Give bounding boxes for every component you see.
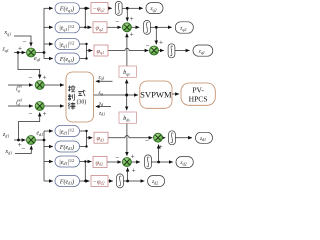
svg-text:ed1: ed1: [37, 131, 44, 137]
wire sum ed1 to node: [36, 139, 45, 141]
wire ed1 distribution vertical: [43, 131, 45, 181]
svg-text:−: −: [115, 154, 119, 162]
wire integrator3 to z_q1 ellipse: [175, 50, 190, 52]
control law box: [66, 72, 94, 122]
wire phi_d2 to sum1b: [107, 161, 121, 163]
svg-text:+: +: [131, 153, 135, 161]
wire z_q1 branch down to iq sum: [18, 53, 40, 79]
svg-text:bds: bds: [123, 116, 130, 123]
svg-text:−: −: [29, 74, 33, 82]
wire sum eq1 to node: [36, 52, 45, 54]
control law chinese: shi: [78, 90, 85, 96]
wire phi_q2 to sum1: [107, 26, 121, 28]
block F(e_q1) row1: [55, 3, 80, 14]
node after integrator1: [126, 7, 129, 10]
wire phi_q1 to sum2 with hop: [108, 48, 149, 50]
wire z_d1 input bottom: [14, 139, 26, 141]
node z_q1 out: [193, 45, 213, 56]
wire sum1 to integrator2: [131, 26, 139, 28]
block |e_q1|^1/2 row2: [55, 22, 80, 33]
svg-text:F(eq1): F(eq1): [59, 56, 74, 63]
wire b_qs up into sum1 bottom: [126, 33, 128, 66]
svg-text:−: −: [146, 42, 150, 50]
integrator 3 d: [169, 131, 176, 145]
svg-text:zq2: zq2: [179, 26, 186, 32]
node join groupA bottom: [85, 145, 87, 147]
node join groupB top: [84, 160, 86, 162]
svg-text:−: −: [23, 38, 27, 46]
wire feed |eq1| row3: [44, 43, 53, 45]
node after integrator2b: [157, 161, 160, 164]
gain phi_q1: [94, 45, 108, 56]
control law chinese: lv: [68, 103, 75, 110]
svg-text:+: +: [130, 15, 134, 23]
wire node up into sum1b bottom: [127, 168, 129, 181]
wire node to z_q2 ellipse row1: [127, 7, 143, 9]
wire join group1: [80, 8, 86, 27]
node join group1 bottom: [84, 26, 86, 28]
gain b_ds: [119, 112, 136, 123]
wire node down into sum2 top: [155, 27, 157, 44]
node z_q1 branch: [17, 51, 20, 54]
svg-text:−: −: [145, 136, 149, 144]
svg-text:+: +: [159, 39, 163, 47]
gain phi_q2: [93, 22, 107, 33]
svg-text:zd2: zd2: [151, 179, 158, 185]
wire integrator2b to node: [152, 161, 159, 163]
wire into -phi_d2: [85, 180, 89, 182]
svg-text:F(ed1): F(ed1): [59, 144, 74, 151]
wire feed F(eq1) row4: [44, 58, 53, 60]
svg-text:zd1: zd1: [199, 136, 206, 142]
svg-text:+: +: [130, 31, 134, 39]
block F(e_q1) row4: [55, 53, 80, 64]
wire sum2 to integrator3: [158, 50, 163, 52]
block F(e_d1) row2b: [55, 141, 80, 152]
svg-text:+: +: [43, 110, 47, 118]
wire feed F(eq1) row1: [44, 7, 53, 9]
wire node down into sum1 top: [126, 8, 128, 21]
wire node to z_d2 ellipse row4b: [128, 180, 145, 182]
svg-text:xd1: xd1: [5, 149, 13, 155]
wire sum2b to integrator3b: [162, 137, 165, 139]
wire into phi_d1: [87, 137, 93, 139]
PV-HPCS box: [181, 83, 215, 105]
svg-text:xq1: xq1: [4, 30, 12, 36]
wire node up into b_qs: [126, 80, 128, 96]
wire into phi_q2: [85, 26, 91, 28]
node join groupB bottom: [84, 180, 86, 182]
svg-text:HPCS: HPCS: [189, 95, 208, 104]
wire z_q1 stub into box: [96, 80, 113, 82]
wire sum1b to integrator2b: [131, 161, 140, 163]
wire s_d z_d1 stub into box: [96, 106, 111, 108]
svg-text:+: +: [159, 143, 163, 151]
wire node to z_q2 ellipse row2: [156, 26, 172, 28]
integrator 1 q: [115, 1, 122, 15]
wire x_d1 input bottom: [15, 146, 31, 154]
svg-text:F(ed1): F(ed1): [59, 178, 74, 185]
sum i_q: [35, 81, 44, 90]
integrator 3 q: [168, 44, 175, 58]
integrator 2 d: [145, 155, 152, 169]
wire z_q1 input: [14, 52, 26, 54]
wire feed |ed1| row1b: [44, 130, 53, 132]
node z_q2 row2: [175, 22, 193, 33]
wire feed F(ed1) row4b: [44, 180, 53, 182]
svg-text:−: −: [115, 18, 119, 26]
svg-text:eq1: eq1: [34, 56, 41, 62]
wire integrator1b to node: [124, 180, 128, 182]
wire node to z_d2 ellipse row2b: [159, 161, 173, 163]
svg-text:sq: sq: [99, 90, 103, 96]
node z_d1 branch: [17, 139, 20, 142]
svg-text:bqs: bqs: [123, 70, 130, 77]
wire feed F(ed1) row2b: [44, 146, 53, 148]
node after integrator2: [155, 26, 158, 29]
sum e_d1: [27, 136, 36, 145]
wire z_d1 branch up to id sum: [19, 113, 40, 141]
node join group2 bottom: [85, 57, 87, 59]
node join groupA top: [85, 130, 87, 132]
wire SVPWM to PV-HPCS: [172, 93, 179, 95]
gain phi_d1: [94, 132, 108, 143]
node z_d2 row2b: [176, 157, 193, 168]
block |e_d1|^1/2 row1b: [55, 126, 80, 137]
wire -phi_q2 to integrator1: [108, 7, 112, 9]
node z_d1 out: [196, 132, 213, 143]
node ed1: [43, 139, 46, 142]
svg-text:zq1: zq1: [198, 49, 205, 55]
svg-text:−: −: [22, 145, 26, 153]
wire node up into sum2b bottom: [158, 145, 160, 162]
wire integrator2 to node: [150, 26, 156, 28]
sum e_q1: [27, 48, 36, 57]
node join group2 top: [85, 43, 87, 45]
svg-text:zq1: zq1: [98, 74, 105, 80]
sum i_d: [35, 102, 44, 111]
wire b_ds down into sum1b top: [126, 123, 128, 156]
wire into phi_d2: [85, 161, 91, 163]
svg-text:zq1: zq1: [2, 47, 9, 53]
gain b_qs: [119, 66, 136, 77]
gain -phi_q2: [91, 3, 108, 14]
svg-text:SVPWM: SVPWM: [140, 90, 172, 100]
wire eq1 distribution vertical: [43, 8, 45, 58]
wire integrator3b to z_d1 ellipse: [176, 137, 193, 139]
sum d observer 1: [122, 158, 131, 167]
node after integrator1b: [126, 180, 129, 183]
svg-text:+: +: [18, 44, 22, 52]
wire iq sum to control box: [44, 84, 64, 86]
SVPWM box: [140, 81, 172, 108]
svg-text:−: −: [29, 109, 33, 117]
wire id ref input: [8, 105, 33, 107]
svg-text:zd2: zd2: [180, 160, 187, 166]
node z_q2 row1: [146, 3, 163, 14]
block |e_d1|^1/2 row3b: [55, 156, 80, 167]
svg-text:zd1: zd1: [98, 110, 105, 116]
wire iq ref input: [8, 84, 33, 86]
svg-text:(30): (30): [77, 99, 87, 106]
wire into -phi_q2: [85, 7, 89, 9]
node z_d2 row4b: [148, 176, 165, 187]
control law chinese: zhi: [68, 94, 74, 101]
svg-text:F(eq1): F(eq1): [59, 6, 74, 13]
sum q observer 2: [150, 46, 159, 55]
svg-text:+: +: [132, 166, 136, 174]
node join group1 top: [84, 7, 86, 9]
wire control output to SVPWM: [94, 94, 139, 96]
wire integrator1 to node: [122, 7, 127, 9]
wire node down into b_ds: [126, 95, 128, 110]
wire join groupB bottom: [80, 162, 86, 182]
wire feed |eq1| row2: [44, 26, 53, 28]
sum q observer 1: [122, 23, 131, 32]
wire id sum to control box: [44, 105, 64, 107]
node eq1: [43, 51, 46, 54]
wire -phi_d2 to integrator1b: [108, 180, 113, 182]
wire phi_d1 to sum2b with hop: [108, 136, 153, 138]
gain phi_d2: [93, 157, 107, 168]
wire feed |ed1| row3b: [44, 161, 53, 163]
integrator 2 q: [144, 20, 151, 34]
wire join group2: [80, 44, 87, 59]
wire join groupA bottom: [80, 131, 87, 147]
block F(e_d1) row4b: [55, 176, 80, 187]
sum d observer 2: [154, 133, 163, 142]
svg-text:zq2: zq2: [150, 6, 157, 12]
svg-text:PV-: PV-: [192, 85, 204, 94]
block |e_q1|^1/2 row3: [55, 39, 80, 50]
svg-text:+: +: [43, 74, 47, 82]
gain -phi_d2: [91, 176, 108, 187]
wire into phi_q1: [87, 50, 93, 52]
integrator 1 d: [117, 174, 124, 188]
control law chinese: kong: [68, 86, 85, 110]
svg-text:zd1: zd1: [2, 132, 9, 138]
wire x_q1 input: [14, 36, 31, 46]
node control output: [125, 94, 128, 97]
